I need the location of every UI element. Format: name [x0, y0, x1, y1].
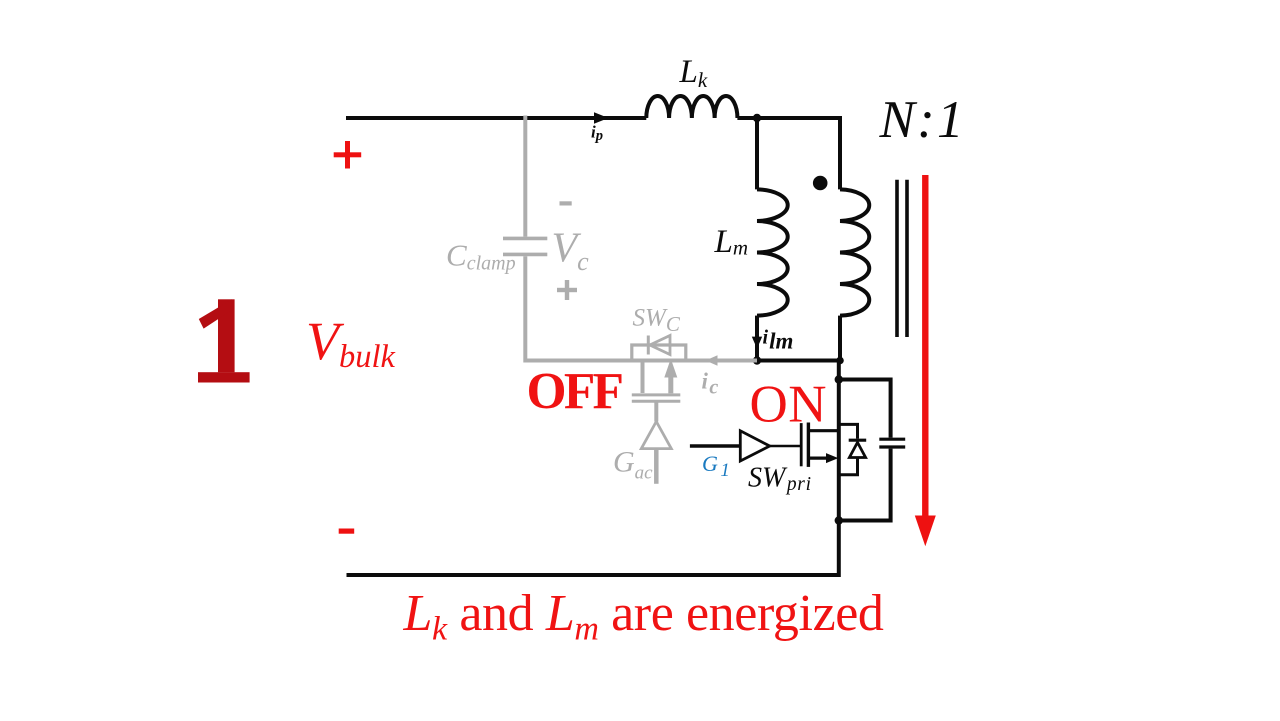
- svg-text:ON: ON: [750, 375, 827, 433]
- svg-text:OFF: OFF: [527, 363, 625, 420]
- svg-text:Lk and Lm are energized: Lk and Lm are energized: [403, 585, 884, 648]
- svg-text:N:1: N:1: [879, 91, 964, 149]
